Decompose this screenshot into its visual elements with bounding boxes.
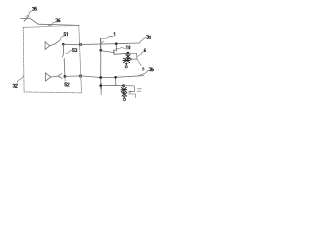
leader 35 <box>26 11 32 16</box>
laser diode 3b node dot <box>122 84 125 87</box>
photodiode 6 arrowhead <box>130 58 132 60</box>
vertical rail from T1 down <box>100 51 103 95</box>
op-amp A1 upper buffer <box>45 42 50 50</box>
laser 3a terminal circle <box>125 66 127 68</box>
laser 3a spine <box>126 53 128 63</box>
switch 51 wire <box>50 44 55 46</box>
dashed box 32 left edge <box>22 27 25 92</box>
bracket lower hook <box>128 94 136 98</box>
label 52 <box>65 83 70 86</box>
leader 52 <box>64 77 66 81</box>
label 51 <box>64 33 68 36</box>
laser 3b diode X lower <box>122 93 127 97</box>
wire T1 to T10 <box>101 51 114 53</box>
photodiode 6 bracket <box>128 53 137 59</box>
wire A upper output <box>63 43 140 45</box>
diagonal lead from bracket <box>137 59 142 66</box>
squiggle mark 5 <box>143 68 145 70</box>
leader 3a <box>140 38 146 43</box>
junction dot wire E left <box>99 84 102 87</box>
laser 3a diode X upper <box>126 55 131 59</box>
junction dot wire A <box>115 42 118 45</box>
rail ground stub <box>100 83 102 88</box>
leader 36 <box>48 22 55 26</box>
dashed box 32 bottom edge <box>24 92 82 93</box>
leader 6 <box>137 52 143 57</box>
dashed box 32 top edge right <box>48 25 79 26</box>
photodiode bracket 3b <box>124 86 135 92</box>
laser 3b terminal circle <box>123 98 125 100</box>
switch 52 wire <box>51 75 58 78</box>
laser 3a diode X lower with bar <box>123 58 130 62</box>
drop wire D to wire E <box>115 77 117 85</box>
label 35 <box>32 7 37 10</box>
label 3a <box>146 35 150 38</box>
leader 1 <box>102 36 114 38</box>
transistor 10 bar <box>113 50 115 54</box>
label 53 <box>72 49 77 52</box>
wire 35 into box <box>30 18 79 25</box>
label 36 <box>56 19 60 22</box>
dashed box 32 top edge left <box>23 26 48 29</box>
laser 3a arrow <box>125 63 128 65</box>
laser diode 3a node dot <box>127 52 130 55</box>
junction dot wire D drop <box>114 76 117 79</box>
photodiode 3b arrowhead <box>129 91 131 93</box>
switch 51 arm <box>55 41 59 44</box>
dashed box 32 right edge <box>79 25 82 93</box>
laser 3b mid dot <box>123 91 125 93</box>
transistor 1 arm <box>101 41 104 43</box>
hatch on lead 35 <box>24 16 29 21</box>
laser 3a mid dot <box>127 58 129 60</box>
switch 53 arm <box>62 54 64 57</box>
transistor 10 drop from wire A <box>115 44 117 52</box>
label 3b <box>149 68 154 72</box>
node dot lower <box>64 75 67 78</box>
wire B to node C <box>114 53 128 54</box>
label 10 <box>126 46 130 49</box>
switch 53 upper segment <box>62 45 64 54</box>
terminal circle upper <box>79 43 82 46</box>
node dot upper <box>62 43 65 46</box>
side bar upper <box>137 88 141 90</box>
leader 32 <box>17 76 23 84</box>
op-amp A2 lower buffer <box>45 73 51 81</box>
leader 51 <box>60 36 64 40</box>
laser 3b spine <box>123 86 126 97</box>
leader 53 <box>66 51 72 54</box>
junction dot rail / wire D <box>99 76 102 79</box>
laser 3b diode X upper with bar <box>121 87 127 92</box>
label 32 <box>13 84 18 87</box>
transistor 10 arm <box>114 48 117 51</box>
laser 3b arrow <box>123 96 126 98</box>
wire D lower output <box>65 76 144 78</box>
switch 53 lower segment <box>63 58 66 76</box>
switch 52 arm <box>58 74 62 79</box>
label 6 <box>144 49 146 52</box>
terminal circle lower <box>79 75 82 78</box>
transistor 1 dot <box>99 49 102 52</box>
label 1 <box>113 33 116 36</box>
side bar lower <box>137 90 141 92</box>
leader 10 <box>116 48 125 49</box>
wire E bottom <box>101 84 124 86</box>
wire 35 lead-in <box>21 17 30 19</box>
transistor 1 bar <box>100 38 102 50</box>
leader 3b <box>139 70 148 75</box>
